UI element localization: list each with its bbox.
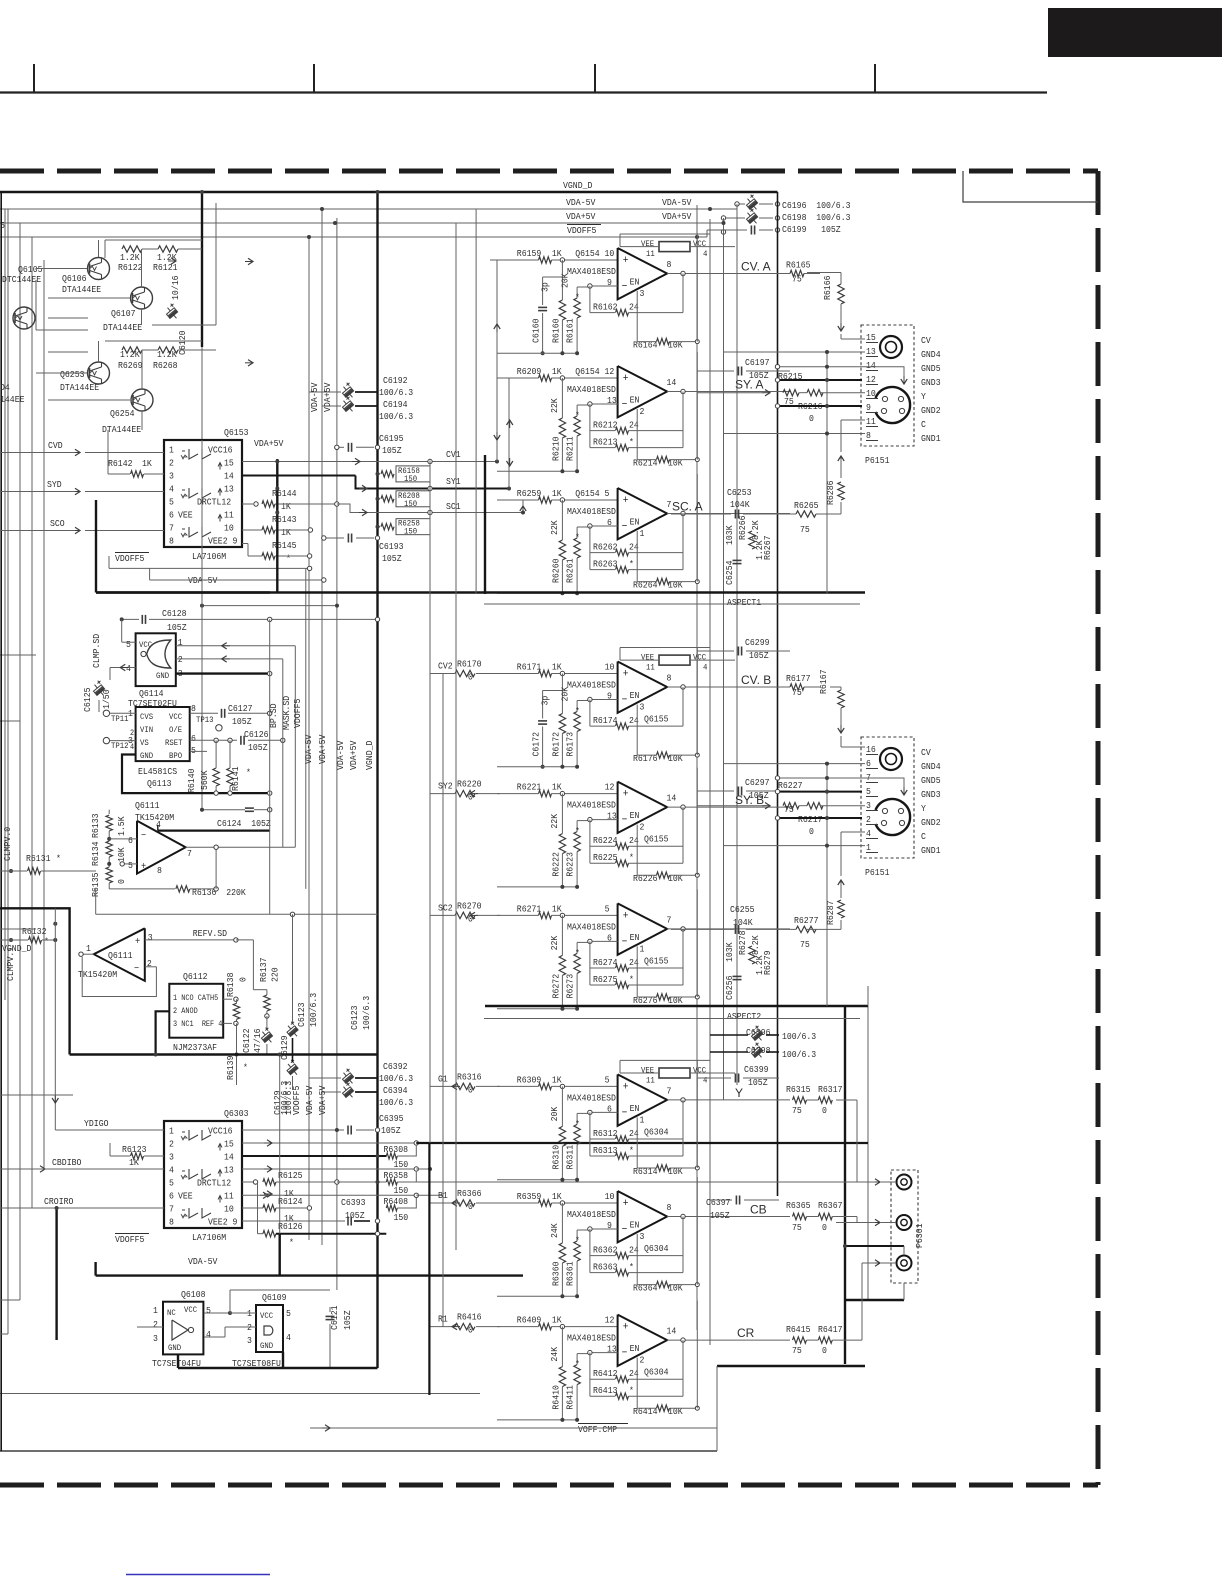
svg-text:R6224: R6224 [593,835,618,846]
svg-text:104K: 104K [730,499,750,510]
svg-text:*: * [575,947,580,958]
svg-text:150: 150 [404,527,417,537]
svg-text:CV. B: CV. B [741,673,771,687]
svg-text:Q6303: Q6303 [224,1108,249,1119]
svg-text:R6268: R6268 [153,360,178,371]
svg-text:MAX4018ESD: MAX4018ESD [567,680,616,691]
svg-text:12: 12 [605,782,615,793]
svg-text:*: * [575,1359,580,1370]
svg-text:1 NCO CATH5: 1 NCO CATH5 [173,994,218,1003]
svg-text:Q6154 12: Q6154 12 [575,366,614,377]
svg-text:VS: VS [140,738,149,748]
svg-text:5: 5 [605,903,610,914]
svg-text:6: 6 [128,835,133,846]
svg-text:*: * [44,936,49,947]
svg-text:150: 150 [394,1159,409,1170]
svg-text:R6121: R6121 [153,262,178,273]
svg-text:2: 2 [169,1139,174,1150]
svg-text:CLMPV.1: CLMPV.1 [5,947,16,981]
svg-text:VEE: VEE [641,653,654,663]
svg-text:CV: CV [921,747,931,758]
svg-text:EN: EN [630,690,640,701]
svg-text:5: 5 [128,860,133,871]
svg-text:6: 6 [866,758,871,769]
svg-text:TP11: TP11 [111,714,129,724]
svg-text:105Z: 105Z [749,650,769,661]
svg-text:R6315: R6315 [786,1084,811,1095]
svg-text:2: 2 [640,406,645,417]
svg-text:GND: GND [168,1343,181,1353]
svg-text:R6362: R6362 [593,1245,618,1256]
svg-text:8: 8 [169,1217,174,1228]
svg-text:2: 2 [169,458,174,469]
svg-text:GND3: GND3 [921,377,941,388]
svg-text:VDA-5V: VDA-5V [335,740,346,770]
svg-text:8: 8 [667,673,672,684]
svg-text:R6272: R6272 [551,974,562,999]
svg-text:MAX4018ESD: MAX4018ESD [567,921,616,932]
svg-text:+: + [623,1198,629,1210]
svg-text:*: * [575,1235,580,1246]
svg-text:*: * [575,532,580,543]
svg-text:R6270: R6270 [457,900,482,911]
svg-text:C6129: C6129 [272,1090,283,1115]
svg-text:VIN: VIN [140,725,153,735]
svg-text:GND4: GND4 [921,349,941,360]
svg-text:R6278: R6278 [737,930,748,955]
svg-text:12: 12 [605,1315,615,1326]
svg-text:*: * [243,1062,248,1073]
svg-text:R6125: R6125 [278,1170,303,1181]
svg-text:DTA144EE: DTA144EE [62,284,101,295]
svg-text:R6409: R6409 [517,1315,542,1326]
svg-text:CV. A: CV. A [741,260,771,274]
svg-text:11: 11 [646,249,655,259]
svg-text:13: 13 [224,1165,234,1176]
svg-text:22K: 22K [549,398,560,413]
svg-text:3: 3 [640,1231,645,1242]
svg-text:−: − [622,815,628,827]
svg-text:10/16: 10/16 [170,275,181,300]
svg-text:4: 4 [169,484,174,495]
svg-text:VEE: VEE [178,510,193,521]
svg-text:−: − [622,281,628,293]
svg-text:105Z: 105Z [342,1310,353,1330]
svg-text:TP13: TP13 [196,715,214,725]
svg-text:VDA+5V: VDA+5V [322,382,333,412]
svg-text:0: 0 [238,977,249,982]
svg-text:C6196 100/6.3: C6196 100/6.3 [782,200,851,211]
svg-text:5: 5 [169,1178,174,1189]
svg-text:R6217: R6217 [798,814,823,825]
svg-text:R6311: R6311 [565,1145,576,1170]
svg-text:BPO: BPO [169,751,182,761]
svg-text:1K: 1K [552,366,562,377]
svg-text:Q6155: Q6155 [644,714,669,725]
svg-text:1/50: 1/50 [101,689,112,709]
svg-text:1: 1 [866,842,871,853]
svg-text:R6263: R6263 [593,559,618,570]
svg-text:3: 3 [169,1152,174,1163]
svg-text:MAX4018ESD: MAX4018ESD [567,1333,616,1344]
svg-text:1K: 1K [142,458,152,469]
svg-text:GND1: GND1 [921,845,941,856]
svg-text:C6393: C6393 [341,1197,366,1208]
svg-text:+: + [623,1081,629,1093]
svg-text:R6167: R6167 [818,670,829,695]
svg-text:C6192: C6192 [383,375,408,386]
svg-text:R6312: R6312 [593,1128,618,1139]
svg-text:R6277: R6277 [794,915,819,926]
svg-text:0: 0 [116,879,127,884]
svg-text:11: 11 [224,1191,234,1202]
svg-text:R6170: R6170 [457,659,482,670]
svg-text:20K: 20K [549,1106,560,1121]
svg-text:105Z: 105Z [248,742,268,753]
svg-text:2: 2 [640,822,645,833]
svg-text:1.5K: 1.5K [116,816,127,836]
svg-text:*: * [575,1118,580,1129]
svg-text:−: − [141,831,146,842]
svg-text:R6313: R6313 [593,1145,618,1156]
svg-text:R6122: R6122 [118,262,143,273]
svg-text:R6279: R6279 [762,950,773,975]
svg-text:CROIRO: CROIRO [44,1196,74,1207]
svg-text:C6398: C6398 [746,1045,771,1056]
svg-text:C6399: C6399 [744,1064,769,1075]
svg-text:Q6153: Q6153 [224,427,249,438]
svg-text:4: 4 [703,249,707,259]
svg-text:VEE: VEE [178,1191,193,1202]
svg-text:VDA-5V: VDA-5V [566,197,596,208]
svg-text:Q6304: Q6304 [644,1243,669,1254]
svg-text:150: 150 [394,1185,409,1196]
svg-text:EN: EN [630,517,640,528]
svg-text:GND: GND [156,671,169,681]
svg-text:GND1: GND1 [921,433,941,444]
svg-text:Q6154 10: Q6154 10 [575,248,614,259]
svg-text:105Z: 105Z [381,1125,401,1136]
svg-text:100/6.3: 100/6.3 [379,1073,413,1084]
svg-text:R6266: R6266 [737,515,748,540]
svg-text:2: 2 [130,729,134,738]
svg-text:R6273: R6273 [565,974,576,999]
svg-text:1: 1 [178,637,183,648]
svg-text:CV2: CV2 [438,661,453,672]
svg-text:GND4: GND4 [921,761,941,772]
svg-text:100/6.3: 100/6.3 [379,1097,413,1108]
svg-text:+: + [623,1322,629,1334]
svg-text:R6165: R6165 [786,260,811,271]
svg-text:22K: 22K [549,520,560,535]
svg-text:VCC: VCC [184,1305,197,1315]
svg-text:R6220: R6220 [457,779,482,790]
svg-text:VEE: VEE [641,1065,654,1075]
svg-text:EN: EN [630,1103,640,1114]
svg-text:R6412: R6412 [593,1368,618,1379]
svg-text:Y: Y [921,803,926,814]
svg-text:Q6109: Q6109 [262,1292,287,1303]
svg-text:6: 6 [169,510,174,521]
svg-text:P6301: P6301 [914,1223,925,1248]
svg-text:ASPECT2: ASPECT2 [727,1011,761,1022]
svg-text:DTA144EE: DTA144EE [103,322,142,333]
svg-text:R6172: R6172 [551,732,562,757]
svg-text:−: − [622,1107,628,1119]
svg-text:VDA+5V: VDA+5V [348,740,359,770]
svg-text:13: 13 [224,484,234,495]
svg-text:1: 1 [640,528,645,539]
svg-text:LA7106M: LA7106M [192,1232,226,1243]
svg-text:Q6155: Q6155 [644,955,669,966]
svg-text:Q6304: Q6304 [644,1367,669,1378]
svg-text:100/6.3: 100/6.3 [283,1081,294,1115]
svg-text:R6317: R6317 [818,1084,843,1095]
svg-text:5: 5 [866,786,871,797]
svg-text:Q6108: Q6108 [181,1289,206,1300]
svg-text:+: + [623,495,629,507]
svg-text:Q6107: Q6107 [111,308,136,319]
svg-text:3: 3 [640,702,645,713]
svg-text:8: 8 [157,865,162,876]
svg-text:C6128: C6128 [162,608,187,619]
svg-text:C6129: C6129 [279,1035,290,1060]
svg-text:47/16: 47/16 [252,1028,263,1053]
svg-text:C6394: C6394 [383,1085,408,1096]
svg-text:4: 4 [130,743,134,752]
svg-text:10: 10 [605,662,615,673]
svg-text:*: * [629,1145,634,1156]
svg-text:105Z: 105Z [382,553,402,564]
svg-text:Q6304: Q6304 [644,1126,669,1137]
svg-text:R6140: R6140 [186,768,197,793]
svg-text:105Z: 105Z [710,1210,730,1221]
svg-text:103K: 103K [724,525,735,545]
svg-text:105Z: 105Z [749,790,769,801]
svg-text:R6358: R6358 [384,1170,409,1181]
svg-text:VDOFF5: VDOFF5 [567,225,597,236]
svg-text:C: C [921,831,926,842]
svg-text:VDOFF5: VDOFF5 [115,1234,145,1245]
svg-text:R6177: R6177 [786,673,811,684]
svg-text:SYD: SYD [47,479,62,490]
svg-text:20K: 20K [560,687,571,702]
svg-text:4: 4 [169,1165,174,1176]
svg-text:10: 10 [224,523,234,534]
svg-text:EN: EN [630,810,640,821]
svg-text:16: 16 [866,744,876,755]
svg-text:CLMP.SD: CLMP.SD [91,634,102,668]
svg-text:VCC16: VCC16 [208,445,233,456]
svg-text:VDA+5V: VDA+5V [317,734,328,764]
svg-text:0: 0 [822,1105,827,1116]
svg-text:*: * [286,553,291,564]
svg-text:Q6106: Q6106 [62,273,87,284]
svg-text:11: 11 [646,663,655,673]
svg-text:C6395: C6395 [379,1113,404,1124]
svg-text:C6199 105Z: C6199 105Z [782,224,841,235]
svg-text:1K: 1K [281,527,291,538]
svg-text:14: 14 [866,360,876,371]
svg-text:1: 1 [169,445,174,456]
svg-text:−: − [134,964,139,975]
svg-text:4: 4 [126,663,131,674]
svg-text:R6262: R6262 [593,542,618,553]
svg-text:VDA-5V: VDA-5V [188,1256,218,1267]
svg-text:SC2: SC2 [438,902,453,913]
svg-text:VGND_D: VGND_D [364,740,375,770]
svg-text:R6287: R6287 [825,901,836,926]
svg-text:+: + [135,937,140,948]
svg-text:R6160: R6160 [551,318,562,343]
svg-text:24K: 24K [549,1347,560,1362]
svg-text:C6123: C6123 [296,1002,307,1027]
svg-text:REFV.SD: REFV.SD [193,928,227,939]
svg-text:3p: 3p [540,282,551,292]
svg-text:6: 6 [169,1191,174,1202]
svg-text:100/6.3: 100/6.3 [782,1049,816,1060]
svg-text:Q6253: Q6253 [60,369,85,380]
svg-text:SY2: SY2 [438,781,453,792]
svg-text:D4: D4 [0,382,10,393]
svg-text:0: 0 [809,826,814,837]
svg-text:*: * [246,767,251,778]
svg-text:VCC: VCC [693,653,706,663]
svg-text:560K: 560K [199,770,210,790]
svg-text:2: 2 [866,814,871,825]
svg-text:6: 6 [191,733,196,744]
svg-text:4: 4 [703,1075,707,1085]
svg-text:MAX4018ESD: MAX4018ESD [567,506,616,517]
svg-text:14: 14 [667,793,677,804]
svg-text:4: 4 [206,1329,211,1340]
svg-text:*: * [575,826,580,837]
svg-text:R6310: R6310 [551,1145,562,1170]
svg-text:1: 1 [169,1126,174,1137]
svg-text:R6123: R6123 [122,1144,147,1155]
svg-text:1K: 1K [552,1074,562,1085]
svg-text:15: 15 [866,332,876,343]
svg-text:R6173: R6173 [565,732,576,757]
svg-text:1K: 1K [552,903,562,914]
svg-text:14: 14 [224,1152,234,1163]
svg-text:R6274: R6274 [593,957,618,968]
svg-text:R6416: R6416 [457,1312,482,1323]
svg-text:C6120: C6120 [177,330,188,355]
svg-text:VGND_D: VGND_D [563,180,593,191]
svg-text:3: 3 [169,471,174,482]
svg-text:4: 4 [866,828,871,839]
svg-text:NC: NC [167,1308,176,1318]
svg-text:8: 8 [866,430,871,441]
svg-text:+: + [623,789,629,801]
svg-text:CLMPV.0: CLMPV.0 [2,827,13,861]
svg-text:1: 1 [640,943,645,954]
svg-text:MAX4018ESD: MAX4018ESD [567,384,616,395]
svg-text:VDA+5V: VDA+5V [254,438,284,449]
svg-text:*: * [575,410,580,421]
svg-text:R6137: R6137 [258,958,269,983]
svg-text:3: 3 [640,288,645,299]
svg-text:3: 3 [153,1333,158,1344]
svg-text:VCC16: VCC16 [208,1126,233,1137]
svg-text:EN: EN [630,1343,640,1354]
svg-text:7: 7 [169,523,174,534]
svg-text:MAX4018ESD: MAX4018ESD [567,1209,616,1220]
svg-text:105Z: 105Z [382,445,402,456]
svg-text:3: 3 [247,1335,252,1346]
svg-text:−: − [622,1224,628,1236]
svg-text:R6367: R6367 [818,1200,843,1211]
svg-text:R6210: R6210 [551,436,562,461]
svg-text:C6172: C6172 [531,732,542,757]
svg-text:R6213: R6213 [593,437,618,448]
svg-text:Q6154 5: Q6154 5 [575,488,609,499]
svg-text:1: 1 [153,1305,158,1316]
svg-text:C: C [921,419,926,430]
svg-text:1K: 1K [552,488,562,499]
svg-text:+: + [623,669,629,681]
svg-text:105Z: 105Z [232,716,252,727]
svg-text:+: + [623,373,629,385]
svg-text:8: 8 [191,703,196,714]
svg-text:MASK.SD: MASK.SD [281,696,292,730]
svg-text:MAX4018ESD: MAX4018ESD [567,800,616,811]
svg-text:EN: EN [630,1220,640,1231]
svg-text:10: 10 [605,1191,615,1202]
svg-text:5: 5 [605,1074,610,1085]
svg-text:*: * [629,559,634,570]
svg-text:R6410: R6410 [551,1385,562,1410]
svg-text:SC. A: SC. A [672,500,703,514]
svg-text:R6366: R6366 [457,1188,482,1199]
svg-text:12: 12 [866,374,876,385]
svg-text:1K: 1K [552,662,562,673]
svg-text:R6126: R6126 [278,1221,303,1232]
svg-text:1.2K: 1.2K [157,349,177,360]
svg-text:CVS: CVS [140,712,153,722]
svg-text:Y: Y [735,1086,743,1100]
svg-text:VCC: VCC [139,640,152,650]
svg-text:O/E: O/E [169,725,182,735]
svg-text:8: 8 [169,536,174,547]
svg-text:4: 4 [156,819,161,830]
svg-text:R6134: R6134 [90,841,101,866]
svg-text:LA7106M: LA7106M [192,551,226,562]
svg-text:C6397: C6397 [706,1197,731,1208]
svg-text:*: * [629,974,634,985]
svg-text:C6198 100/6.3: C6198 100/6.3 [782,212,851,223]
svg-text:YDIGO: YDIGO [84,1118,109,1129]
svg-text:VDA+5V: VDA+5V [317,1085,328,1115]
svg-text:VDA-5V: VDA-5V [304,1085,315,1115]
svg-text:C6195: C6195 [379,433,404,444]
svg-text:R6271: R6271 [517,903,542,914]
svg-text:75: 75 [792,1345,802,1356]
svg-text:EN: EN [630,932,640,943]
svg-text:1K: 1K [552,248,562,259]
svg-text:R6275: R6275 [593,974,618,985]
svg-text:TK15420M: TK15420M [135,812,174,823]
svg-text:VDA+5V: VDA+5V [566,211,596,222]
svg-text:R6161: R6161 [565,318,576,343]
svg-text:GND3: GND3 [921,789,941,800]
svg-text:VCC: VCC [693,1065,706,1075]
svg-text:R6222: R6222 [551,852,562,877]
svg-text:2: 2 [178,654,183,665]
svg-text:−: − [622,936,628,948]
svg-text:*: * [56,853,61,864]
